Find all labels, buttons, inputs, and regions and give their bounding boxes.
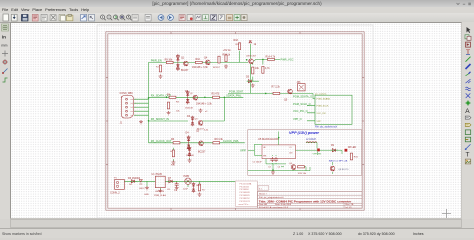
svg-text:R18: R18: [234, 39, 239, 42]
svg-text:R1: R1: [156, 66, 159, 68]
svg-text:Q4: Q4: [204, 57, 208, 60]
svg-text:VCC_PIC: VCC_PIC: [317, 113, 327, 115]
svg-text:D6 1N4004: D6 1N4004: [128, 177, 141, 180]
svg-text:x2: x2: [205, 111, 208, 113]
svg-text:R14 4,7k: R14 4,7k: [266, 55, 276, 58]
svg-text:PIC12C671: PIC12C671: [240, 201, 251, 203]
svg-text:PIC16C84: PIC16C84: [240, 186, 250, 188]
svg-text:PIC16F876: PIC16F876: [240, 195, 251, 197]
svg-text:BC307: BC307: [213, 67, 220, 69]
svg-text:more PICs...: more PICs...: [239, 204, 251, 206]
svg-text:D5: D5: [246, 76, 250, 79]
svg-text:PGM_SCLK_O: PGM_SCLK_O: [293, 102, 311, 106]
svg-text:VFB: VFB: [263, 155, 267, 157]
svg-text:8.1: 8.1: [259, 188, 263, 190]
svg-text:LBI: LBI: [263, 147, 266, 149]
svg-text:Q8 BS170: Q8 BS170: [338, 169, 349, 171]
svg-text:3,3k: 3,3k: [204, 130, 209, 132]
svg-text:VCC_PIC_O: VCC_PIC_O: [293, 109, 308, 113]
svg-text:Title: JDM - COM84 PIC Program: Title: JDM - COM84 PIC Programmer with 1…: [259, 200, 352, 204]
svg-text:D2: D2: [185, 90, 189, 93]
svg-text:R1: R1: [202, 190, 206, 192]
svg-text:pic_sockets: pic_sockets: [315, 92, 327, 95]
svg-text:R11: R11: [171, 165, 176, 167]
svg-text:10k: 10k: [255, 67, 260, 70]
svg-text:1k: 1k: [254, 43, 257, 46]
svg-text:File: pic_sockets.sch: File: pic_sockets.sch: [315, 126, 338, 129]
svg-text:PGM_SDATA_O: PGM_SDATA_O: [293, 95, 312, 99]
svg-text:R8 3,3k: R8 3,3k: [215, 138, 224, 141]
svg-text:1k: 1k: [170, 151, 172, 153]
svg-text:File: pic_programmer.sch: File: pic_programmer.sch: [259, 196, 284, 199]
svg-text:1: 1: [135, 99, 136, 101]
svg-text:PIC18F252: PIC18F252: [240, 198, 251, 200]
svg-text:BC237: BC237: [198, 151, 206, 154]
svg-text:PIC16F84: PIC16F84: [240, 189, 250, 191]
svg-text:VPP_O: VPP_O: [293, 117, 302, 121]
svg-text:OUT: OUT: [289, 153, 293, 155]
svg-text:BC237: BC237: [197, 128, 204, 130]
svg-text:Sheet: /: Sheet: /: [259, 192, 267, 195]
svg-text:D7: D7: [168, 177, 172, 180]
svg-text:22uF: 22uF: [183, 189, 189, 191]
svg-text:R5 470: R5 470: [212, 93, 220, 96]
svg-text:VPP: VPP: [240, 149, 246, 153]
svg-text:R10: R10: [196, 58, 201, 61]
svg-text:4,7k: 4,7k: [265, 67, 270, 70]
svg-text:PGM_SDATA: PGM_SDATA: [317, 98, 331, 101]
svg-text:U1 78L05: U1 78L05: [152, 173, 163, 176]
svg-text:R16: R16: [354, 157, 359, 159]
svg-text:PIC16F628: PIC16F628: [240, 192, 251, 194]
svg-text:D9: D9: [331, 145, 335, 147]
svg-text:CLOCK_PWL: CLOCK_PWL: [223, 139, 240, 143]
svg-text:1N4148: 1N4148: [185, 108, 193, 110]
svg-text:LX: LX: [290, 147, 293, 149]
svg-text:J1: J1: [120, 122, 123, 125]
svg-text:C2 100uF: C2 100uF: [253, 162, 263, 164]
svg-text:Q9 BC307: Q9 BC307: [246, 55, 257, 57]
svg-text:R18 1k: R18 1k: [223, 54, 231, 57]
svg-text:L2 100uH: L2 100uH: [306, 139, 316, 141]
svg-text:C8: C8: [167, 189, 171, 191]
svg-text:Id: 1/1: Id: 1/1: [346, 207, 353, 209]
svg-text:D4: D4: [186, 132, 190, 135]
svg-text:1N4148: 1N4148: [186, 155, 194, 157]
svg-text:JP1: JP1: [297, 81, 302, 84]
svg-text:U5 MAX641ACPA: U5 MAX641ACPA: [258, 137, 279, 141]
svg-text:CONN_2: CONN_2: [110, 192, 120, 195]
svg-text:2: 2: [135, 103, 136, 105]
svg-text:5: 5: [135, 115, 136, 117]
svg-text:RX_CLOCK_OUT: RX_CLOCK_OUT: [151, 139, 172, 143]
svg-text:Q3: Q3: [195, 119, 199, 121]
svg-text:R15 10k: R15 10k: [298, 173, 307, 175]
svg-text:C1: C1: [174, 189, 178, 192]
svg-text:C3: C3: [268, 167, 272, 169]
svg-text:A: A: [465, 108, 470, 115]
svg-text:C4: C4: [278, 167, 282, 169]
svg-text:D6: D6: [129, 184, 133, 186]
svg-text:CONN_DB9: CONN_DB9: [120, 92, 134, 95]
svg-text:In: In: [2, 34, 6, 39]
svg-text:RX_SDOUT_IN: RX_SDOUT_IN: [151, 117, 169, 121]
svg-text:Size: A4 Date: 6 f: Size: A4 Date: 6 feb 2006: [259, 203, 292, 206]
svg-text:1N4148 + 3,3k: 1N4148 + 3,3k: [196, 103, 212, 106]
svg-text:SDATA_PWL: SDATA_PWL: [226, 94, 242, 98]
svg-text:10k: 10k: [176, 111, 180, 113]
svg-text:LED2: LED2: [139, 188, 145, 190]
svg-text:+5V 1k: +5V 1k: [223, 49, 231, 52]
svg-text:BC237: BC237: [181, 69, 189, 72]
svg-text:PGM_SCLK: PGM_SCLK: [317, 106, 329, 108]
svg-text:PWR: PWR: [184, 175, 190, 178]
svg-text:Q5: Q5: [284, 99, 288, 102]
svg-text:KiCad E.D.A. eeschema 4.0.5: KiCad E.D.A. eeschema 4.0.5: [259, 206, 289, 209]
svg-text:R9 10k: R9 10k: [165, 59, 173, 62]
svg-text:R6: R6: [171, 138, 175, 141]
svg-text:GND: GND: [144, 194, 149, 196]
svg-text:R3: R3: [176, 102, 180, 104]
svg-text:D8 LED: D8 LED: [348, 147, 356, 149]
svg-text:Q2: Q2: [190, 93, 194, 95]
svg-text:3: 3: [135, 107, 136, 109]
svg-text:mm: mm: [1, 44, 7, 48]
svg-text:VPP: VPP: [317, 121, 322, 123]
svg-text:T: T: [466, 152, 470, 159]
svg-text:PWR_FLAG: PWR_FLAG: [154, 194, 166, 197]
svg-text:R7 2,2k: R7 2,2k: [272, 86, 281, 89]
svg-text:VPP (13V) power: VPP (13V) power: [289, 131, 320, 135]
svg-text:BAV21 or MPT+2A: BAV21 or MPT+2A: [329, 160, 348, 163]
svg-text:PIC12C508A: PIC12C508A: [240, 182, 252, 185]
svg-text:Q1: Q1: [181, 57, 185, 60]
svg-text:PWR_EN: PWR_EN: [151, 59, 162, 63]
svg-text:4: 4: [135, 111, 136, 113]
svg-text:PWR_VCC: PWR_VCC: [281, 57, 294, 61]
svg-text:1N4148 + 3,3k: 1N4148 + 3,3k: [192, 66, 208, 69]
svg-text:VPP_FB: VPP_FB: [313, 154, 322, 156]
svg-text:LED1: LED1: [196, 185, 202, 187]
svg-text:PGM_SDAT: PGM_SDAT: [229, 90, 243, 94]
svg-text:D3: D3: [187, 115, 191, 118]
